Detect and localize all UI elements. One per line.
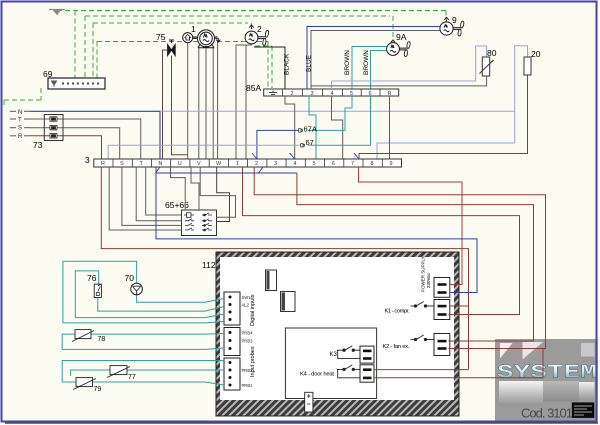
svg-text:9: 9 [452, 15, 457, 25]
svg-text:K1 - compr.: K1 - compr. [385, 309, 410, 315]
svg-text:67A: 67A [304, 125, 317, 134]
svg-text:75: 75 [156, 32, 166, 42]
svg-text:U: U [178, 161, 182, 167]
svg-text:S: S [120, 161, 124, 167]
svg-text:AL2: AL2 [242, 303, 250, 308]
svg-text:Digital inputs: Digital inputs [250, 294, 256, 326]
svg-text:Input probes: Input probes [250, 346, 256, 377]
svg-text:8: 8 [371, 161, 374, 167]
svg-text:2: 2 [291, 91, 294, 97]
svg-text:4: 4 [294, 161, 297, 167]
svg-text:N: N [18, 110, 22, 116]
svg-text:9A: 9A [396, 32, 407, 42]
svg-text:77: 77 [128, 374, 136, 381]
svg-text:76: 76 [87, 273, 97, 283]
svg-text:R: R [18, 134, 23, 140]
svg-text:T: T [18, 118, 22, 124]
svg-text:S: S [18, 126, 22, 132]
svg-text:POWER SUPPLY: POWER SUPPLY [421, 256, 426, 292]
svg-text:1: 1 [236, 161, 239, 167]
svg-text:Cod. 3101: Cod. 3101 [521, 406, 573, 421]
svg-text:BLACK: BLACK [284, 53, 291, 75]
svg-text:K4 - door heat: K4 - door heat [300, 372, 334, 378]
svg-text:5: 5 [313, 161, 316, 167]
svg-text:4: 4 [331, 91, 334, 97]
svg-text:BROWN: BROWN [344, 50, 351, 75]
svg-text:230Vac: 230Vac [426, 272, 431, 288]
svg-text:3: 3 [274, 161, 277, 167]
svg-text:7: 7 [351, 161, 354, 167]
svg-text:N: N [159, 161, 163, 167]
svg-text:SYSTEM: SYSTEM [497, 362, 597, 384]
svg-text:6: 6 [332, 161, 335, 167]
svg-text:K2 - fan ex.: K2 - fan ex. [383, 344, 410, 350]
svg-text:2: 2 [257, 24, 262, 34]
svg-text:R: R [101, 161, 105, 167]
svg-text:PRB1: PRB1 [242, 383, 254, 388]
svg-text:PRB4: PRB4 [242, 331, 254, 336]
svg-text:9: 9 [390, 161, 393, 167]
svg-text:70: 70 [125, 273, 135, 283]
svg-text:3: 3 [311, 91, 314, 97]
svg-text:W: W [216, 161, 222, 167]
svg-text:3: 3 [85, 155, 90, 165]
svg-text:73: 73 [33, 140, 43, 150]
svg-text:BLUE: BLUE [306, 54, 313, 72]
svg-text:BROWN: BROWN [363, 50, 370, 75]
svg-text:PRB3: PRB3 [242, 339, 254, 344]
svg-text:79: 79 [94, 386, 102, 393]
svg-text:V: V [197, 161, 201, 167]
svg-text:78: 78 [98, 336, 106, 343]
svg-text:K3: K3 [330, 352, 338, 358]
svg-text:2: 2 [255, 161, 258, 167]
svg-text:85A: 85A [246, 83, 261, 93]
svg-text:67: 67 [306, 138, 314, 147]
svg-text:1: 1 [191, 24, 196, 34]
svg-text:20: 20 [531, 49, 541, 59]
svg-text:112: 112 [202, 260, 216, 270]
